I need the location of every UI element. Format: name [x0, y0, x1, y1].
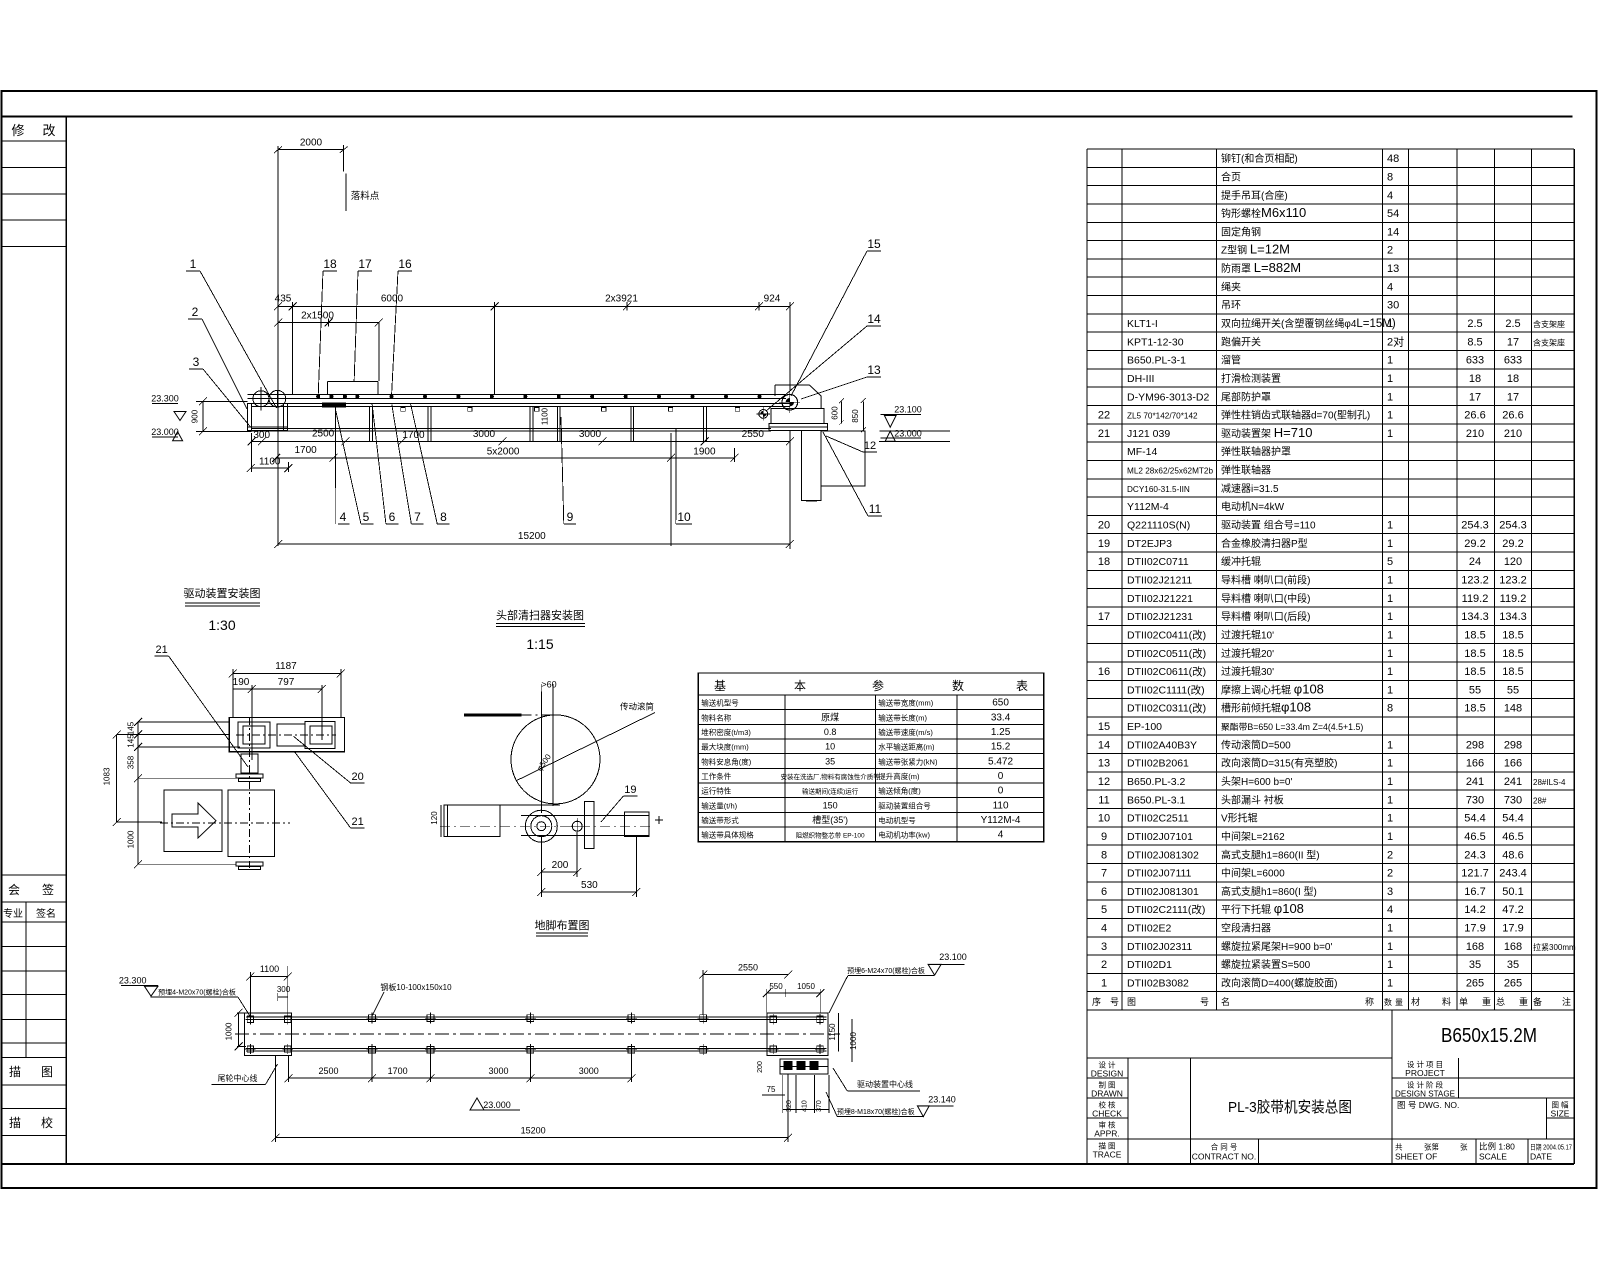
- svg-text:11: 11: [869, 502, 882, 516]
- svg-text:跑偏开关: 跑偏开关: [1221, 335, 1261, 348]
- tail take-up frame: [248, 403, 288, 430]
- svg-text:54.4: 54.4: [1464, 813, 1485, 825]
- svg-text:300: 300: [253, 430, 270, 441]
- svg-text:530: 530: [581, 880, 598, 891]
- svg-text:254.3: 254.3: [1461, 520, 1489, 532]
- svg-text:300: 300: [277, 985, 291, 994]
- svg-text:双向拉绳开关(含塑覆钢丝绳φ4L=15M): 双向拉绳开关(含塑覆钢丝绳φ4L=15M): [1221, 317, 1396, 330]
- svg-text:12: 12: [1098, 776, 1110, 788]
- svg-text:驱动装置组合号: 驱动装置组合号: [878, 800, 931, 810]
- svg-text:DTII02C2511: DTII02C2511: [1127, 813, 1189, 825]
- svg-text:料: 料: [1442, 996, 1451, 1007]
- svg-text:日期 2004.05.17: 日期 2004.05.17: [1530, 1144, 1572, 1152]
- title block texts: [1091, 1059, 1572, 1162]
- drive detail title: [184, 586, 261, 633]
- BOM header row: [1092, 996, 1571, 1007]
- svg-text:DTII02C1111(改): DTII02C1111(改): [1127, 683, 1205, 696]
- svg-text:固定角钢: 固定角钢: [1221, 225, 1261, 238]
- svg-text:备: 备: [1533, 996, 1542, 1007]
- svg-text:吊环: 吊环: [1221, 300, 1241, 312]
- svg-text:B650.PL-3.1: B650.PL-3.1: [1127, 794, 1186, 806]
- svg-text:29.2: 29.2: [1502, 538, 1523, 550]
- leader 15: [791, 237, 881, 396]
- svg-text:DTII02D1: DTII02D1: [1127, 959, 1172, 971]
- svg-text:序: 序: [1092, 996, 1101, 1007]
- leader 16: [392, 257, 413, 397]
- svg-text:1700: 1700: [294, 445, 317, 456]
- svg-text:1083: 1083: [103, 767, 112, 785]
- leader 13: [801, 363, 881, 399]
- foundation plate label: [372, 982, 452, 1016]
- drive leader 21b: [295, 752, 365, 828]
- svg-text:265: 265: [1466, 978, 1484, 990]
- svg-text:9: 9: [1101, 831, 1107, 843]
- svg-text:54: 54: [1387, 208, 1399, 220]
- cleaner chute bar: [541, 680, 556, 814]
- svg-text:17: 17: [1469, 391, 1481, 403]
- svg-text:DTII02C0311(改): DTII02C0311(改): [1127, 702, 1206, 715]
- tail pulley: [252, 387, 286, 411]
- svg-text:单: 单: [1459, 996, 1468, 1007]
- svg-text:123.2: 123.2: [1461, 574, 1489, 586]
- cleaner arm: [521, 802, 663, 849]
- svg-text:200: 200: [757, 1061, 764, 1073]
- svg-text:SHEET OF: SHEET OF: [1395, 1152, 1437, 1162]
- svg-text:23.000: 23.000: [894, 428, 922, 438]
- svg-text:119.2: 119.2: [1500, 593, 1527, 605]
- svg-text:拉紧300mm: 拉紧300mm: [1533, 942, 1576, 952]
- svg-text:ML2 28x62/25x62MT2b: ML2 28x62/25x62MT2b: [1127, 467, 1213, 476]
- foundation right anchor square: [767, 1013, 828, 1056]
- svg-text:电动机功率(kw): 电动机功率(kw): [878, 830, 930, 840]
- svg-text:1: 1: [1387, 355, 1393, 367]
- svg-text:输送带具体规格: 输送带具体规格: [701, 830, 754, 840]
- bottom dim row 1: [248, 428, 794, 445]
- svg-text:10: 10: [825, 742, 835, 752]
- svg-text:4: 4: [1101, 923, 1107, 935]
- svg-text:17.9: 17.9: [1464, 923, 1485, 935]
- leader 17: [354, 257, 372, 382]
- sidebar label zhuanye qianming: [3, 907, 56, 920]
- svg-text:15200: 15200: [518, 531, 546, 542]
- svg-text:张: 张: [1460, 1143, 1468, 1152]
- svg-text:改: 改: [42, 123, 55, 138]
- svg-text:PL-3胶带机安装总图: PL-3胶带机安装总图: [1228, 1099, 1352, 1116]
- svg-text:DTII02B3082: DTII02B3082: [1127, 978, 1189, 990]
- svg-text:1: 1: [1387, 373, 1393, 385]
- svg-text:18: 18: [1469, 373, 1481, 385]
- svg-text:导料槽 喇叭口(前段): 导料槽 喇叭口(前段): [1221, 573, 1310, 586]
- parameter table header: [714, 678, 1028, 693]
- svg-text:1: 1: [1387, 593, 1393, 605]
- conveyor belt and frame: [248, 395, 790, 431]
- svg-text:驱动装置 组合号=110: 驱动装置 组合号=110: [1221, 519, 1316, 532]
- svg-text:数: 数: [952, 678, 964, 693]
- svg-text:1.25: 1.25: [991, 727, 1011, 738]
- svg-text:驱动装置中心线: 驱动装置中心线: [857, 1079, 913, 1089]
- svg-text:35: 35: [1469, 959, 1481, 971]
- svg-text:尾轮中心线: 尾轮中心线: [218, 1073, 258, 1083]
- svg-text:1: 1: [1387, 629, 1393, 641]
- drive detail dims 190 797: [233, 677, 326, 760]
- svg-text:1100: 1100: [259, 457, 281, 468]
- feed chute: [328, 382, 378, 395]
- svg-text:J121 039: J121 039: [1127, 428, 1170, 440]
- svg-text:1: 1: [1387, 831, 1393, 843]
- svg-text:2550: 2550: [742, 429, 765, 440]
- svg-text:54.4: 54.4: [1502, 813, 1523, 825]
- foundation right anchor bolts: [768, 1014, 825, 1054]
- svg-text:输送倾角(度): 输送倾角(度): [878, 786, 921, 796]
- svg-text:EP-100: EP-100: [1127, 721, 1162, 733]
- cleaner leader 19: [601, 784, 637, 822]
- svg-text:SIZE: SIZE: [1551, 1109, 1570, 1119]
- svg-text:1: 1: [1387, 574, 1393, 586]
- svg-text:46.5: 46.5: [1464, 831, 1485, 843]
- svg-text:DTII02C0411(改): DTII02C0411(改): [1127, 628, 1206, 641]
- leader 11: [823, 432, 882, 516]
- leader 8: [410, 403, 449, 524]
- svg-text:槽型(35'): 槽型(35'): [812, 814, 848, 825]
- svg-text:148: 148: [1504, 703, 1522, 715]
- svg-text:18.5: 18.5: [1502, 648, 1523, 660]
- svg-text:SCALE: SCALE: [1479, 1152, 1507, 1162]
- svg-text:驱动装置安装图: 驱动装置安装图: [184, 586, 261, 600]
- svg-text:物料安息角(度): 物料安息角(度): [701, 756, 751, 766]
- svg-text:B650.PL-3.2: B650.PL-3.2: [1127, 776, 1186, 788]
- svg-text:图 号 DWG. NO.: 图 号 DWG. NO.: [1397, 1100, 1459, 1110]
- svg-text:中间架L=6000: 中间架L=6000: [1221, 867, 1285, 880]
- sidebar label miaojiao: [9, 1115, 53, 1130]
- svg-text:预埋4-M20x70(螺栓)合板: 预埋4-M20x70(螺栓)合板: [158, 988, 236, 997]
- svg-text:2: 2: [192, 305, 199, 319]
- svg-text:730: 730: [1504, 794, 1522, 806]
- svg-text:数: 数: [1384, 997, 1392, 1007]
- svg-text:5: 5: [1387, 556, 1393, 568]
- svg-text:24: 24: [1469, 556, 1481, 568]
- svg-text:121.7: 121.7: [1461, 868, 1489, 880]
- svg-text:含支架座: 含支架座: [1533, 337, 1565, 347]
- svg-text:19: 19: [624, 784, 636, 796]
- svg-text:900: 900: [191, 409, 200, 423]
- svg-text:描: 描: [9, 1065, 21, 1079]
- foundation elevation 23.000 center: [470, 1098, 520, 1110]
- svg-text:7: 7: [1101, 868, 1107, 880]
- svg-text:1: 1: [1387, 684, 1393, 696]
- svg-text:1: 1: [1387, 648, 1393, 660]
- svg-text:量: 量: [1395, 998, 1403, 1007]
- svg-text:21: 21: [1098, 428, 1110, 440]
- svg-text:16: 16: [1098, 666, 1110, 678]
- svg-text:中间架L=2162: 中间架L=2162: [1221, 830, 1285, 843]
- svg-text:2.5: 2.5: [1505, 318, 1520, 330]
- svg-text:CHECK: CHECK: [1092, 1109, 1122, 1119]
- svg-text:14.2: 14.2: [1464, 904, 1485, 916]
- svg-text:高式支腿h1=860(I 型): 高式支腿h1=860(I 型): [1221, 885, 1317, 898]
- dim 2000: [274, 138, 348, 547]
- svg-text:358: 358: [127, 755, 136, 769]
- bottom dim row 3: [247, 433, 293, 472]
- svg-text:10: 10: [1098, 813, 1110, 825]
- left 900 dim: [191, 397, 252, 435]
- leader 6: [372, 404, 398, 524]
- leader 1: [186, 257, 277, 408]
- svg-text:633: 633: [1504, 355, 1522, 367]
- svg-text:水平输送距离(m): 水平输送距离(m): [878, 742, 935, 752]
- svg-text:1: 1: [1387, 978, 1393, 990]
- svg-text:DATE: DATE: [1530, 1152, 1552, 1162]
- svg-text:18.5: 18.5: [1502, 666, 1523, 678]
- svg-text:改向滚筒D=400(螺旋胶面): 改向滚筒D=400(螺旋胶面): [1221, 977, 1337, 990]
- svg-text:26.6: 26.6: [1464, 410, 1485, 422]
- right level lines: [879, 431, 950, 442]
- svg-text:DTII02J081302: DTII02J081302: [1127, 849, 1199, 861]
- svg-text:1: 1: [1101, 978, 1107, 990]
- svg-text:730: 730: [1466, 794, 1484, 806]
- foundation drive anchor strip: [757, 1059, 828, 1074]
- parameter table grid: [698, 673, 1044, 842]
- svg-text:320: 320: [786, 1100, 793, 1112]
- svg-text:1000: 1000: [127, 830, 136, 848]
- svg-text:重: 重: [1519, 996, 1528, 1007]
- svg-text:550: 550: [769, 982, 783, 991]
- frame bottom plates: [401, 407, 740, 411]
- svg-text:0: 0: [998, 786, 1004, 797]
- svg-text:螺旋拉紧尾架H=900 b=0': 螺旋拉紧尾架H=900 b=0': [1221, 940, 1332, 953]
- svg-text:减速器i=31.5: 减速器i=31.5: [1221, 483, 1279, 495]
- elevation 23.000 right: [881, 428, 922, 441]
- svg-text:1: 1: [1387, 666, 1393, 678]
- svg-text:1700: 1700: [388, 1066, 408, 1076]
- idler bolts: [317, 395, 761, 398]
- svg-text:溜管: 溜管: [1221, 354, 1241, 367]
- svg-text:3: 3: [1101, 941, 1107, 953]
- svg-text:输送带长度(m): 输送带长度(m): [878, 712, 927, 722]
- svg-text:参: 参: [872, 678, 884, 693]
- svg-text:高式支腿h1=860(II 型): 高式支腿h1=860(II 型): [1221, 848, 1320, 861]
- svg-text:35: 35: [825, 756, 835, 766]
- bottom dim row 2: [272, 433, 738, 546]
- svg-text:20: 20: [1098, 520, 1110, 532]
- svg-text:落料点: 落料点: [351, 190, 380, 202]
- svg-text:410: 410: [802, 1100, 809, 1112]
- svg-text:张第: 张第: [1424, 1142, 1440, 1152]
- svg-text:48: 48: [1387, 153, 1399, 165]
- svg-text:描: 描: [9, 1116, 21, 1130]
- svg-text:17.9: 17.9: [1502, 923, 1523, 935]
- svg-text:1: 1: [1387, 611, 1393, 623]
- dim 15200 main: [274, 430, 794, 549]
- svg-text:KPT1-12-30: KPT1-12-30: [1127, 336, 1184, 348]
- leg span label 1100: [541, 407, 550, 425]
- drive leader 20: [293, 736, 364, 783]
- title drawing name: [1228, 1099, 1352, 1116]
- svg-text:48.6: 48.6: [1502, 849, 1523, 861]
- svg-text:8: 8: [1387, 171, 1393, 183]
- foundation right vertical dims: [828, 1013, 858, 1062]
- svg-text:2x1500: 2x1500: [301, 310, 334, 321]
- svg-text:241: 241: [1466, 776, 1484, 788]
- svg-text:28#: 28#: [1533, 796, 1547, 805]
- svg-text:35: 35: [1507, 959, 1519, 971]
- svg-text:号: 号: [1110, 997, 1119, 1007]
- svg-text:1050: 1050: [797, 982, 815, 991]
- svg-text:输送带速度(m/s): 输送带速度(m/s): [878, 727, 933, 737]
- top dimension row: [274, 294, 794, 395]
- foundation dim 1000 left: [225, 1009, 247, 1051]
- svg-text:传动滚筒D=500: 传动滚筒D=500: [1221, 738, 1291, 751]
- svg-text:10: 10: [677, 510, 691, 524]
- foundation dim 75: [762, 1085, 785, 1095]
- svg-text:1: 1: [1387, 959, 1393, 971]
- svg-text:预埋6-M24x70(螺栓)合板: 预埋6-M24x70(螺栓)合板: [847, 966, 925, 975]
- svg-text:堆积密度(t/m3): 堆积密度(t/m3): [701, 727, 751, 737]
- svg-text:28#ILS-4: 28#ILS-4: [1533, 778, 1566, 787]
- svg-text:弹性柱销齿式联轴器d=70(堲制孔): 弹性柱销齿式联轴器d=70(堲制孔): [1221, 409, 1370, 422]
- svg-text:18: 18: [1507, 373, 1519, 385]
- svg-text:空段清扫器: 空段清扫器: [1221, 922, 1271, 935]
- svg-text:166: 166: [1504, 758, 1522, 770]
- svg-text:210: 210: [1466, 428, 1484, 440]
- svg-text:DTII02C0711: DTII02C0711: [1127, 556, 1189, 568]
- svg-text:3000: 3000: [579, 429, 602, 440]
- svg-text:370: 370: [816, 1100, 823, 1112]
- cleaner title: [496, 608, 585, 652]
- svg-text:18.5: 18.5: [1464, 666, 1485, 678]
- svg-text:比例 1:80: 比例 1:80: [1479, 1142, 1515, 1152]
- head frame: [769, 408, 828, 430]
- foundation elevation 23.100 right: [829, 952, 967, 1013]
- svg-text:最大块度(mm): 最大块度(mm): [701, 742, 749, 752]
- svg-text:19: 19: [1098, 538, 1110, 550]
- svg-text:5x2000: 5x2000: [487, 447, 520, 458]
- svg-text:23.100: 23.100: [939, 952, 967, 962]
- svg-text:DESIGN STAGE: DESIGN STAGE: [1395, 1089, 1455, 1099]
- svg-text:DTII02J21221: DTII02J21221: [1127, 593, 1193, 605]
- svg-text:924: 924: [764, 294, 781, 305]
- svg-text:1900: 1900: [693, 447, 716, 458]
- svg-text:图: 图: [1127, 997, 1136, 1007]
- svg-text:共: 共: [1395, 1143, 1403, 1152]
- drive pulley plan: [160, 790, 290, 870]
- svg-text:输送带宽度(mm): 输送带宽度(mm): [878, 698, 933, 708]
- svg-text:119.2: 119.2: [1462, 593, 1489, 605]
- sheet inner bottom line: [2, 1163, 1575, 1165]
- svg-text:导料槽 喇叭口(后段): 导料槽 喇叭口(后段): [1221, 610, 1310, 623]
- svg-text:头部漏斗 衬板: 头部漏斗 衬板: [1221, 793, 1284, 806]
- svg-text:过渡托辊10': 过渡托辊10': [1221, 628, 1274, 641]
- svg-text:DH-III: DH-III: [1127, 373, 1154, 385]
- svg-text:1000: 1000: [225, 1022, 234, 1040]
- svg-text:物料名称: 物料名称: [701, 712, 731, 722]
- svg-text:21: 21: [351, 816, 363, 828]
- impact idler bed: [323, 403, 346, 407]
- svg-text:1:15: 1:15: [526, 636, 553, 652]
- belt direction arrow: [164, 790, 222, 852]
- BOM table grid: [1087, 149, 1574, 1010]
- svg-text:6: 6: [1101, 886, 1107, 898]
- svg-text:材: 材: [1411, 996, 1420, 1007]
- svg-text:1187: 1187: [275, 661, 297, 672]
- head chute: [775, 385, 821, 408]
- leader 2: [188, 305, 247, 409]
- right 600 dim: [831, 398, 844, 425]
- svg-text:1: 1: [1387, 318, 1393, 330]
- svg-text:15: 15: [1098, 721, 1110, 733]
- svg-text:12: 12: [864, 440, 876, 452]
- cleaner lower beam: [430, 805, 650, 837]
- foundation tail center label: [212, 1064, 278, 1085]
- svg-text:工作条件: 工作条件: [701, 771, 731, 781]
- foundation anchor label right: [826, 1092, 924, 1117]
- svg-text:243.4: 243.4: [1499, 868, 1527, 880]
- svg-text:3000: 3000: [488, 1066, 508, 1076]
- svg-text:55: 55: [1507, 684, 1519, 696]
- svg-text:电动机型号: 电动机型号: [878, 815, 916, 825]
- svg-text:1150: 1150: [828, 1023, 837, 1041]
- svg-text:5.472: 5.472: [988, 756, 1013, 767]
- svg-text:DTII02B2061: DTII02B2061: [1127, 758, 1189, 770]
- svg-text:23.000: 23.000: [483, 1100, 511, 1110]
- svg-text:重: 重: [1482, 996, 1491, 1007]
- svg-text:0: 0: [998, 771, 1004, 782]
- svg-text:4: 4: [998, 830, 1004, 841]
- right 850 dim: [851, 398, 866, 432]
- svg-text:运行特性: 运行特性: [701, 786, 731, 796]
- svg-text:29.2: 29.2: [1464, 538, 1485, 550]
- svg-text:1: 1: [1387, 794, 1393, 806]
- head pulley circle: [511, 702, 655, 804]
- svg-text:9: 9: [567, 510, 574, 524]
- svg-text:241: 241: [1504, 776, 1522, 788]
- svg-text:DTII02J07101: DTII02J07101: [1127, 831, 1193, 843]
- svg-text:Q221110S(N): Q221110S(N): [1127, 520, 1190, 532]
- svg-text:Y112M-4: Y112M-4: [1127, 501, 1169, 513]
- svg-text:提升高度(m): 提升高度(m): [878, 771, 920, 781]
- svg-text:头架H=600 b=0': 头架H=600 b=0': [1221, 776, 1292, 788]
- svg-text:本: 本: [794, 679, 806, 693]
- svg-text:33.4: 33.4: [991, 712, 1011, 723]
- svg-text:1: 1: [1387, 739, 1393, 751]
- svg-text:1:30: 1:30: [208, 617, 235, 633]
- svg-text:TRACE: TRACE: [1093, 1150, 1122, 1160]
- svg-text:8: 8: [1101, 849, 1107, 861]
- foundation dim 1100 left: [246, 964, 291, 1015]
- drive vertical shaft: [236, 717, 263, 868]
- drive pedestal: [802, 431, 865, 501]
- svg-text:2550: 2550: [738, 962, 758, 972]
- svg-text:DTII02C0611(改): DTII02C0611(改): [1127, 665, 1206, 678]
- svg-text:过渡托辊30': 过渡托辊30': [1221, 665, 1274, 678]
- svg-text:50.1: 50.1: [1502, 886, 1523, 898]
- svg-text:3: 3: [193, 355, 200, 369]
- svg-text:5: 5: [1101, 904, 1107, 916]
- foundation dim 2550 top: [699, 962, 792, 1015]
- svg-text:14: 14: [1098, 739, 1110, 751]
- left sidebar grid: [2, 116, 67, 1164]
- svg-text:150: 150: [823, 800, 838, 810]
- svg-text:190: 190: [233, 677, 250, 688]
- svg-text:23.300: 23.300: [151, 394, 179, 404]
- svg-text:1: 1: [1387, 813, 1393, 825]
- svg-text:110: 110: [993, 800, 1009, 811]
- svg-text:47.2: 47.2: [1502, 904, 1523, 916]
- svg-text:8: 8: [1387, 703, 1393, 715]
- svg-text:6000: 6000: [381, 294, 404, 305]
- foundation drive center label: [833, 1068, 920, 1091]
- cleaner wheel: [525, 810, 557, 842]
- svg-text:弹性联轴器护罩: 弹性联轴器护罩: [1221, 445, 1291, 458]
